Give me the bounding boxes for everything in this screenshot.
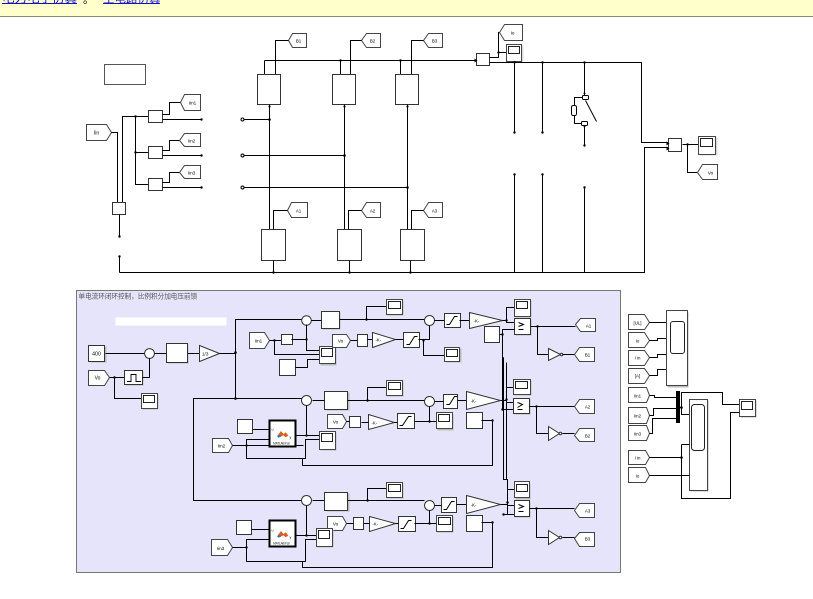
svg-text:电力电子仿真: 电力电子仿真 [2,0,77,6]
wire K to comparator ch3 [501,490,515,506]
svg-text:I in: I in [635,356,641,361]
thyristor T4 [262,230,286,261]
svg-text:y: y [290,536,292,540]
wire Iin1 to gain square [270,339,282,341]
svg-text:-K-: -K- [376,338,382,343]
wire constant to matlab ch3 [252,529,270,531]
carrier block ch3 [467,516,483,532]
sum circle 2 ch1 [425,316,435,326]
from tag Iin bottom [629,451,650,465]
svg-text:A1: A1 [586,324,592,329]
wire PI to gain [188,353,200,355]
wire gate B3 [412,41,424,75]
constant 400 [89,346,107,363]
svg-text:[UL]: [UL] [633,321,641,326]
from tag Iin1 right [629,388,650,403]
wire saturation to K ch1 [460,320,470,322]
svg-text:Io: Io [636,474,640,479]
gain square Vo ch2 [347,417,361,428]
current sensor Io [475,54,490,66]
wire Io sensor output to scope and tag [490,33,507,58]
PI controller block [167,344,189,364]
wire constant to scope in3 ch1 [296,360,320,368]
from tag Iin3 [212,540,233,556]
wire carrier distribution v2 [502,358,514,516]
top DC bus [265,59,477,74]
wire sum2 to saturation ch1 [435,320,445,322]
wire saturation to K ch3 [457,504,467,506]
thyristor T3 [396,75,419,105]
white annotation strip [116,318,227,326]
logic NOT ch2 [549,427,575,441]
wire 400 to sum [106,353,145,355]
svg-text:A3: A3 [585,509,591,514]
breaker switch [572,63,597,147]
scope tall 3in [690,400,709,492]
logic NOT ch1 [549,349,575,361]
from tag A2 [362,203,381,218]
dangling wire from bus 1 [513,63,515,134]
wire Io bottom to scope [650,475,690,477]
svg-text:u: u [272,428,274,432]
wire sum2 to saturation ch3 [435,505,442,507]
dangling wire from bottom bus 2 [541,173,543,272]
wire T6 cathode to bus [409,261,411,274]
wire sum to PI ch2 [313,400,325,402]
svg-text:A1: A1 [296,209,302,214]
svg-text:Iin1: Iin1 [255,339,263,344]
dangling wire from bus 2 [541,63,543,134]
PI block ch1 [322,312,341,330]
gain -K- Vo ch1 [373,333,396,348]
current sensor 1 [149,111,163,123]
svg-text:-K-: -K- [373,522,379,527]
svg-text:B3: B3 [432,39,438,44]
svg-text:Vo: Vo [333,420,339,425]
wire K to comparator ch1 [503,308,515,323]
RIGHT COLUMN [629,311,757,499]
scope Vo path ch2 [437,413,454,431]
wires tags to scope4 [650,323,667,376]
thyristor T1 [258,75,281,105]
svg-text:单电流环闭环控制，比例积分加电压前馈: 单电流环闭环控制，比例积分加电压前馈 [79,292,198,301]
svg-text:Iin2: Iin2 [188,139,196,144]
subsystem background [77,291,621,573]
saturation ch2 [444,395,458,409]
wire Iin2 junction [233,440,304,447]
wire saturation to K ch2 [458,400,467,402]
svg-text:Io: Io [511,31,515,36]
dangling wire to bottom bus [118,255,120,272]
from tag [A] [629,369,650,384]
svg-text:Vo: Vo [338,339,344,344]
saturation ch3 [442,498,457,513]
svg-text:Vo: Vo [333,522,339,527]
wire T5 cathode to bus [348,261,350,274]
scope ch1 current loop [387,300,404,316]
goto tag Iin3 [180,166,201,179]
wire matlab y to sum ch2 [295,406,320,437]
carrier block ch1 [485,327,500,343]
from tag B1 [289,34,307,48]
from tag Vo ch2 [328,415,347,429]
from tag Io bottom [629,468,650,483]
from tag Io top [629,333,650,348]
header link 2 (clipped) [103,0,161,6]
sum circle 2 ch3 [425,501,435,511]
pulse generator block [125,371,144,386]
goto tag Vo ref [89,371,110,386]
constant square ch2 [238,420,253,434]
scope small right [740,400,757,418]
svg-text:主电路仿真: 主电路仿真 [103,0,161,6]
wire feed line to current sensors [123,115,149,202]
wire Vo sensor output [683,143,699,172]
wires tags to mux [650,396,677,434]
wire saturation to scope ch1b [424,341,445,356]
DC bus right [490,61,669,142]
header link 1 (clipped) [2,0,77,6]
svg-text:-K-: -K- [471,399,477,404]
svg-text:MATLAB Fcn: MATLAB Fcn [273,442,290,446]
gain square Vo ch3 [347,518,364,530]
svg-text:B1: B1 [296,39,302,44]
constant square ch3 [237,521,252,535]
wire gain to channel rails [194,320,304,501]
scope Vo ref [142,394,159,410]
svg-text:Iin1: Iin1 [634,394,642,399]
svg-text:1/3: 1/3 [202,351,209,356]
scope pwm ch3 [515,482,531,500]
sum circle ch1 [302,316,312,326]
scope 3in ch2 [320,432,337,451]
goto tag Iin1 [181,95,201,111]
gain square Vo ch1 [358,335,368,347]
wire Iin1 to scope in2 ch1 [275,341,320,355]
svg-text:y: y [290,436,292,440]
gain -K- ch2 [467,392,501,410]
wire comparator out ch3 [530,507,575,537]
subsystem title annotation [79,292,198,301]
svg-text:Iin2: Iin2 [634,414,642,419]
wire carrier to comparator ch1 [500,330,515,336]
svg-text:MATLAB Fcn: MATLAB Fcn [273,542,290,546]
wire gate B1 [276,41,289,75]
wire mux out [680,393,740,415]
saturation Vo ch1 [404,333,420,348]
wire saturation ch3 to sum2 and scope [415,511,437,525]
wire Vo to pulse block [110,376,125,378]
header separator [83,0,94,6]
gain -K- ch1 [470,313,503,329]
svg-text:B2: B2 [370,39,376,44]
scope ch3 current loop [387,483,404,499]
wire gate A2 [349,211,362,230]
dangling wire stub sensor2 output [163,154,203,156]
thyristor T6 [401,230,425,261]
wire saturation to sum2 ch1 [419,326,430,342]
wire to scope in1 ch1 [307,340,320,351]
wire carrier ch3 loop [303,521,494,567]
wire carrier distribution v1 [501,335,513,411]
gain -K- ch3 [467,496,501,514]
sum junction circle ref [145,349,155,359]
MATLAB Fcn block ch2 [270,421,296,447]
comparator ch1 [515,319,532,336]
wire K to comparator ch2 [501,388,514,403]
MAIN CIRCUIT [87,25,718,274]
from tag Vo [698,165,718,180]
sum circle 2 ch2 [425,397,435,407]
wire sum2 to saturation ch2 [435,401,444,403]
sum block bottom left [113,203,126,215]
wire gate B2 [351,41,362,75]
from tag A1 [288,203,308,218]
wire comparator out ch2 [530,405,575,433]
goto tag Iin2 [180,134,201,147]
svg-text:Io: Io [636,339,640,344]
goto tag Iin [87,125,112,141]
scope Vo [699,137,718,156]
svg-text:B3: B3 [585,537,591,542]
constant square ch1 [280,360,296,376]
wire saturation ch2 to sum2 and scope [415,407,437,423]
saturation ch1 [445,314,461,328]
svg-text:-K-: -K- [474,319,480,324]
goto tag A1 [576,319,596,332]
wire PI ch3 to sum2 with scope tap [348,489,425,502]
scope 4in tall [667,311,689,388]
open wire to phase A node [241,118,271,121]
comparator ch3 [515,501,531,518]
from tag B3 [424,34,443,48]
dangling wire from bottom bus 1 [513,173,515,272]
from tag A3 [424,203,443,218]
PI block ch3 [325,493,350,512]
voltage sensor Vo [667,139,682,152]
wire T4 cathode to bus [272,261,274,274]
wire comparator out ch1 [531,325,576,354]
svg-text:-K-: -K- [471,503,477,508]
svg-text:-K-: -K- [372,421,378,426]
wire phase C [406,105,408,230]
wire PI ch1 to sum2 with scope tap [340,307,425,321]
dangling wire from bottom bus 3 [583,186,585,272]
comparator ch2 [514,399,531,415]
svg-text:Iin3: Iin3 [188,171,196,176]
wire vertical v3 [506,363,508,480]
mux [677,392,680,423]
from tag Iin3 right [629,426,650,441]
wire sum to PI ch1 [312,320,322,322]
open wire to phase B node [241,154,346,157]
wire PI ch2 to sum2 with scope tap [348,388,425,402]
svg-text:A2: A2 [370,209,376,214]
scope pwm ch2 [514,380,532,396]
wire sensor2 to tag Iin2 [163,141,180,151]
scope Io [507,45,524,63]
scope 3in ch1 [320,347,337,366]
svg-text:A3: A3 [432,209,438,214]
svg-text:I in: I in [635,456,641,461]
svg-text:u: u [272,529,274,533]
current sensor 3 [149,179,163,191]
wire Vo to square ch1 [351,340,358,342]
sum circle ch3 [302,496,312,506]
gain -K- Vo ch3 [364,517,396,532]
wire sensor1 to tag Iin1 [163,103,181,115]
dangling wire sum block output [118,215,120,238]
scope Vo path ch3 [437,516,454,533]
wire phase A [268,105,270,230]
from tag Vo ch1 [333,335,351,348]
goto tag A3 [575,504,595,518]
svg-text:400: 400 [92,352,101,358]
saturation Vo ch2 [395,414,415,429]
svg-text:Vo: Vo [708,171,714,176]
wire carrier ch2 loop [303,419,494,465]
svg-text:。: 。 [83,0,94,6]
wire Iin3 to scope loop ch3 [247,540,317,562]
gain square ch1 [282,335,293,345]
from tag [UL] [629,315,650,330]
dangling wire stub sensor1 output [163,118,203,120]
SUBSYSTEM [77,291,621,573]
svg-text:A2: A2 [585,405,591,410]
gain 1/3 [200,346,220,362]
wire constant to matlab ch2 [253,429,270,431]
dangling wire stub sensor3 output [163,186,203,188]
wire square to K ch1 [368,339,373,341]
svg-text:Iin2: Iin2 [218,444,226,449]
scope ch2 current loop [387,381,404,397]
thyristor T2 [333,75,356,105]
wire Iin2 to scope loop ch2 [247,440,320,459]
svg-text:Iin1: Iin1 [189,101,197,106]
wire sum to PI ch3 [313,500,325,502]
wire gate A3 [412,211,424,230]
wire matlab y to sum ch3 [295,506,317,537]
goto tag B3 [575,533,595,547]
from tag Iin1 ch1 [250,333,270,349]
svg-text:B2: B2 [585,434,591,439]
wire phase B [343,105,345,230]
wire Vo to scope [115,378,142,399]
current sensor 2 [149,147,163,159]
wire sensor3 to tag Iin3 [163,173,180,183]
wire Iin3 junction [233,540,270,549]
svg-text:Vo: Vo [95,376,101,382]
PI block ch2 [325,392,350,411]
scope Vo path ch1 [445,348,462,363]
goto tag B2 [575,429,595,442]
goto tag Io [500,25,523,41]
scope pwm ch1 [515,300,532,318]
from tag Iin2 [213,439,233,453]
svg-text:Iin: Iin [94,131,100,137]
carrier block ch2 [467,413,483,429]
MATLAB Fcn block ch3 [270,521,296,547]
wire K to saturation ch1 [396,339,404,341]
from tag Vo ch3 [328,517,347,531]
sum circle ch2 [302,396,312,406]
goto tag A2 [575,400,595,414]
from tag Iin2 right [629,408,650,424]
from tag B2 [362,34,381,48]
svg-text:B1: B1 [585,353,591,358]
from tag Iin top [629,351,650,366]
wire gate A1 [274,211,288,230]
logic NOT ch3 [549,531,575,545]
wire gain square to sum1 ch1 [292,325,308,341]
svg-text:Iin3: Iin3 [634,432,642,437]
saturation Vo ch3 [396,517,416,532]
gain -K- Vo ch2 [362,415,395,430]
powergui block [105,65,146,85]
wire pulse to sum [143,359,150,378]
wire Iin to sum block input 1 [112,133,118,203]
bottom bus [120,148,669,273]
scope 3in ch3 [317,529,334,548]
wire Iin bottom to scope [650,413,740,499]
goto tag B1 [575,348,595,362]
wire sum to PI [155,353,167,355]
svg-text:[A]: [A] [635,374,640,379]
svg-text:Iin3: Iin3 [217,546,225,551]
thyristor T5 [338,230,362,261]
open wire to phase C node [241,186,409,189]
